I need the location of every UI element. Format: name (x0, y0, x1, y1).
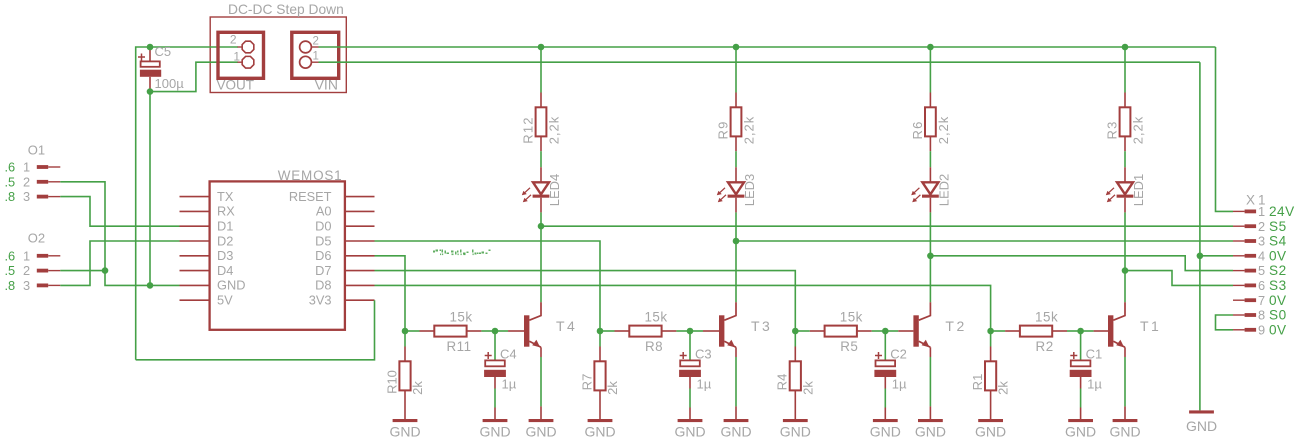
label O1 (28, 143, 45, 158)
ground C2 (870, 419, 901, 440)
svg-text:15k: 15k (1035, 310, 1058, 325)
junction base T1 (987, 328, 994, 335)
net label O2 pin 3 .8 (5, 278, 16, 293)
pin WEMOS1 D8 stub (345, 284, 375, 286)
svg-text:.5: .5 (5, 174, 16, 189)
svg-text:T3: T3 (751, 318, 772, 334)
net label O1 pin 2 .5 (5, 174, 16, 189)
capacitor C1 bottom plate (1070, 370, 1092, 377)
wire O1.3 to D1 (60, 197, 179, 227)
svg-text:100µ: 100µ (155, 76, 185, 91)
svg-text:1: 1 (1258, 204, 1265, 219)
pin label WEMOS1 D1 (217, 219, 233, 234)
pin number X1 9 (1258, 322, 1265, 337)
label C2 (890, 347, 907, 362)
wire GND net C5 column down (149, 92, 151, 286)
svg-text:1µ: 1µ (502, 377, 517, 392)
transistor T3 emitter lead down (735, 347, 737, 357)
svg-text:R1: R1 (970, 374, 985, 391)
LED LED4 lead top (540, 167, 542, 182)
LED LED2 arrows (911, 188, 920, 203)
note text green (433, 250, 491, 256)
LED LED2 lead bottom (929, 198, 931, 213)
ground C3 (674, 419, 705, 440)
connector VIN pin 2 pad (300, 41, 312, 53)
svg-text:R6: R6 (910, 120, 925, 139)
pin number VIN 1 (313, 51, 319, 63)
wire base feed 5 row (375, 271, 796, 331)
junction 24V rail at R9 (733, 44, 740, 51)
pin number O1 1 (23, 160, 30, 175)
pin X1.7 stub (1233, 298, 1256, 302)
value R8 15k (644, 310, 667, 325)
label R10 (384, 370, 399, 394)
pin WEMOS1 A0 stub (345, 210, 375, 212)
svg-text:1: 1 (23, 248, 30, 263)
svg-text:O1: O1 (28, 143, 45, 158)
wire base junction down (404, 331, 406, 347)
svg-text:GND: GND (479, 424, 510, 440)
svg-text:GND: GND (217, 278, 245, 293)
wire collector column T1 (1124, 212, 1126, 302)
pin X1.1 stub (1233, 210, 1256, 214)
svg-text:1: 1 (23, 160, 30, 175)
pin O1.3 stub (37, 195, 61, 199)
svg-text:.8: .8 (5, 278, 16, 293)
label WEMOS1 (278, 168, 343, 183)
ground R4 (780, 419, 811, 440)
net label O2 pin 2 .5 (5, 263, 16, 278)
svg-text:0V: 0V (1269, 322, 1287, 337)
net label X1.5 S2 (1269, 263, 1287, 278)
resistor R12 lead top (540, 93, 542, 108)
svg-text:1µ: 1µ (892, 377, 907, 392)
resistor R5 body (825, 326, 857, 337)
LED LED4 triangle (533, 182, 549, 194)
resistor R7 body (594, 361, 605, 390)
wire emitter to GND (1124, 357, 1126, 406)
svg-text:C3: C3 (695, 347, 712, 362)
resistor R6 lead top (929, 93, 931, 108)
wire cap junction to base (885, 330, 898, 332)
svg-text:GND: GND (389, 424, 420, 440)
LED LED2 triangle (922, 182, 938, 194)
junction 24V rail at R3 (1122, 44, 1129, 51)
svg-text:O2: O2 (28, 231, 45, 246)
ground R7 (584, 419, 615, 440)
svg-text:5: 5 (1258, 263, 1265, 278)
resistor R2 lead left (1005, 330, 1020, 332)
net label O1 pin 1 .6 (5, 160, 16, 175)
wire base junction to R2 (991, 330, 1006, 332)
wire S4 from T3 collector to X1 pin 3 (736, 240, 1233, 242)
resistor R8 lead right (662, 330, 677, 332)
svg-text:D1: D1 (217, 219, 233, 234)
connector VOUT pin 1 pad (242, 56, 254, 68)
value C4 1µ (502, 377, 517, 392)
transistor T1 base lead (1094, 330, 1108, 332)
ground C1 (1065, 419, 1096, 440)
LED LED1 triangle (1117, 182, 1133, 194)
svg-text:D0: D0 (315, 219, 331, 234)
pin number X1 5 (1258, 263, 1265, 278)
junction 0V at X1 pin 4 (1197, 253, 1204, 260)
capacitor C3 bottom plate (679, 370, 701, 377)
LED LED4 lead bottom (540, 198, 542, 213)
svg-text:VOUT: VOUT (217, 78, 255, 93)
junction 24V rail at R12 (538, 44, 545, 51)
wire S5 from T4 collector to X1 pin 2 (541, 225, 1233, 227)
transistor T3 base lead (703, 330, 719, 332)
resistor R5 lead right (857, 330, 872, 332)
pin number VOUT 1 (233, 49, 240, 63)
svg-text:3V3: 3V3 (309, 293, 332, 308)
net label X1.4 0V (1269, 248, 1287, 263)
transistor T1 base bar (1108, 315, 1113, 346)
svg-text:2: 2 (23, 263, 30, 278)
transistor T1 collector lead (1113, 302, 1125, 320)
capacitor C2 lead bottom (884, 377, 886, 389)
pin O1.2 stub (37, 180, 61, 184)
value C5 100µ (155, 76, 185, 91)
pin WEMOS1 RESET stub (345, 196, 375, 198)
svg-text:R2: R2 (1036, 339, 1054, 354)
resistor R1 body (985, 361, 996, 390)
svg-text:R12: R12 (521, 116, 536, 143)
svg-text:2: 2 (23, 174, 30, 189)
label R5 (840, 339, 858, 354)
pin X1.2 stub (1233, 224, 1256, 228)
pin WEMOS1 D2 stub (180, 240, 210, 242)
wire R3 to LED1 (1124, 151, 1126, 167)
value C2 1µ (892, 377, 907, 392)
ground T2 emitter (915, 419, 946, 440)
svg-text:R8: R8 (645, 339, 663, 354)
transistor T2 base bar (913, 315, 918, 346)
junction base T3 (597, 328, 604, 335)
resistor R7 lead bottom (599, 390, 601, 419)
wire O1.2 down to GND net (60, 182, 179, 286)
label C3 (695, 347, 712, 362)
capacitor C2 top plate (876, 360, 896, 366)
svg-text:2,2k: 2,2k (742, 116, 757, 145)
svg-text:3: 3 (1258, 234, 1265, 249)
svg-text:LED1: LED1 (1131, 174, 1146, 207)
wire cap gnd (689, 389, 691, 420)
wire 24V net VOUT.2 to C5 and left drop (136, 47, 238, 360)
svg-text:T4: T4 (556, 318, 577, 334)
svg-text:LED2: LED2 (936, 174, 951, 207)
svg-text:D7: D7 (315, 263, 331, 278)
net label X1.1 24V (1269, 204, 1295, 219)
svg-text:2k: 2k (410, 381, 425, 395)
resistor R1 lead bottom (990, 390, 992, 419)
svg-text:GND: GND (1065, 424, 1096, 440)
wire emitter gnd stub (735, 406, 737, 419)
label R7 (579, 374, 594, 391)
svg-text:3: 3 (23, 189, 30, 204)
pin number O1 3 (23, 189, 30, 204)
wire 24V rail to R12 (540, 47, 542, 93)
junction cap C4 (492, 328, 499, 335)
transistor T2 base lead (898, 330, 913, 332)
svg-text:GND: GND (1109, 424, 1140, 440)
pin O2.2 stub (37, 269, 61, 273)
transistor T1 emitter lead down (1124, 347, 1126, 357)
svg-text:R3: R3 (1105, 120, 1120, 139)
capacitor C5 bottom plate (140, 70, 161, 77)
LED LED1 lead bottom (1124, 198, 1126, 213)
pin label WEMOS1 5V (217, 293, 233, 308)
wire base junction to R11 (405, 330, 420, 332)
resistor R9 lead top (735, 93, 737, 108)
value R2 15k (1035, 310, 1058, 325)
pin number X1 6 (1258, 278, 1265, 293)
net label X1.9 0V (1269, 322, 1287, 337)
pin number X1 1 (1258, 204, 1265, 219)
junction collector T3 tap (733, 238, 740, 245)
wire cap junction to base (1081, 330, 1094, 332)
wire S0 strap X1 pin 8 to pin 9 (1216, 315, 1234, 330)
svg-text:2k: 2k (605, 381, 620, 395)
junction collector T1 tap (1122, 267, 1129, 274)
label DC-DC Step Down (228, 2, 344, 17)
transistor T4 base lead (508, 330, 524, 332)
ground C4 (479, 419, 510, 440)
svg-text:C5: C5 (155, 44, 172, 59)
svg-text:2: 2 (313, 36, 319, 48)
pin label WEMOS1 D8 (315, 278, 331, 293)
svg-text:GND: GND (1186, 418, 1217, 434)
pin X1.3 stub (1233, 239, 1256, 243)
pin WEMOS1 D7 stub (345, 270, 375, 272)
value R6 2,2k (936, 116, 951, 145)
wire base feed 3 row (375, 241, 601, 331)
junction cap C1 (1077, 328, 1084, 335)
wire 24V rail from VIN.2 to right (319, 46, 1216, 48)
ground R10 (389, 419, 420, 440)
pin number O1 2 (23, 174, 30, 189)
junction base T4 (402, 328, 409, 335)
capacitor C4 lead bottom (494, 377, 496, 389)
svg-text:.5: .5 (5, 263, 16, 278)
svg-text:R7: R7 (579, 374, 594, 391)
IC WEMOS1 box (210, 181, 345, 329)
label C4 (500, 347, 517, 362)
pin label WEMOS1 3V3 (309, 293, 332, 308)
resistor R9 body (731, 107, 742, 136)
pin X1.5 stub (1233, 269, 1256, 273)
pin number X1 3 (1258, 234, 1265, 249)
pin WEMOS1 5V stub (180, 299, 210, 301)
label C5 (155, 44, 172, 59)
ground T4 emitter (525, 419, 556, 440)
transistor T2 emitter lead down (929, 347, 931, 357)
wire base feed 4 row (375, 256, 406, 331)
value R4 2k (800, 381, 815, 395)
pin lead VOUT.1 (238, 61, 244, 63)
label O2 (28, 231, 45, 246)
svg-text:GND: GND (780, 424, 811, 440)
svg-text:LED4: LED4 (547, 174, 562, 207)
LED LED3 lead bottom (735, 198, 737, 213)
resistor R3 body (1120, 107, 1131, 136)
junction GND net at C5 column (147, 282, 154, 289)
transistor T3 base bar (719, 315, 724, 346)
wire emitter to GND (929, 357, 931, 406)
wire base junction to R8 (600, 330, 615, 332)
capacitor C5 top plate (141, 61, 160, 66)
pin X1.4 stub (1233, 254, 1256, 258)
svg-text:GND: GND (584, 424, 615, 440)
resistor R5 lead left (810, 330, 825, 332)
wire base junction to R5 (795, 330, 810, 332)
capacitor C1 top plate (1071, 360, 1091, 366)
svg-text:D6: D6 (315, 248, 331, 263)
svg-text:1µ: 1µ (1087, 377, 1102, 392)
value R9 2,2k (742, 116, 757, 145)
svg-text:0V: 0V (1269, 293, 1287, 308)
svg-text:R11: R11 (446, 339, 471, 354)
capacitor C4 lead top (494, 331, 496, 360)
wire base junction down (990, 331, 992, 347)
pin lead VIN.1 (312, 61, 319, 63)
capacitor C1 lead top (1080, 331, 1082, 360)
LED LED4 arrows (522, 188, 531, 203)
resistor R10 lead top (404, 347, 406, 362)
resistor R9 lead bottom (735, 136, 737, 151)
svg-text:D4: D4 (217, 263, 233, 278)
pin WEMOS1 D4 stub (180, 270, 210, 272)
wire S2 from T2 collector to X1 pin 5 (930, 256, 1233, 271)
wire cap gnd (494, 389, 496, 420)
resistor R11 lead left (420, 330, 435, 332)
pin label WEMOS1 D7 (315, 263, 331, 278)
resistor R2 body (1020, 326, 1052, 337)
pin O2.3 stub (37, 284, 61, 288)
wire base junction down (599, 331, 601, 347)
svg-text:T1: T1 (1140, 318, 1161, 334)
resistor R8 lead left (615, 330, 630, 332)
capacitor C2 lead top (884, 331, 886, 360)
transistor T2 emitter lead (919, 340, 931, 348)
pin label WEMOS1 RESET (289, 189, 332, 204)
wire 3V3 to VOUT net (136, 300, 375, 360)
svg-text:GND: GND (720, 424, 751, 440)
svg-text:6: 6 (1258, 278, 1265, 293)
net label X1.8 S0 (1269, 308, 1287, 323)
svg-text:DC-DC Step Down: DC-DC Step Down (228, 2, 344, 17)
wire collector column T2 (929, 212, 931, 302)
svg-text:LED3: LED3 (742, 174, 757, 207)
wire O2.2 to GND net (60, 270, 105, 272)
svg-text:D3: D3 (217, 248, 233, 263)
wire S3 from T1 collector to X1 pin 6 (1125, 271, 1233, 286)
wire 24V drop to X1 pin 1 (1216, 47, 1234, 211)
label T2 (945, 318, 966, 334)
svg-text:VIN: VIN (315, 77, 338, 93)
net label X1.6 S3 (1269, 278, 1287, 293)
label R9 (716, 120, 731, 139)
svg-text:2: 2 (230, 33, 237, 47)
svg-text:1: 1 (233, 49, 240, 63)
svg-text:24V: 24V (1269, 204, 1295, 219)
net label O2 pin 1 .6 (5, 248, 16, 263)
capacitor C5 lead bottom (149, 77, 151, 92)
wire cap gnd (1080, 389, 1082, 420)
wire emitter to GND (540, 357, 542, 406)
pin X1.6 stub (1233, 284, 1256, 288)
value R12 2,2k (547, 116, 562, 145)
svg-text:GND: GND (870, 424, 901, 440)
wire 24V rail to R9 (735, 47, 737, 93)
wire 24V rail to R3 (1124, 47, 1126, 93)
pin number O2 1 (23, 248, 30, 263)
capacitor C3 top plate (680, 360, 700, 366)
label R2 (1036, 339, 1054, 354)
transistor T4 emitter lead (529, 340, 541, 348)
capacitor C4 top plate (485, 360, 505, 366)
pin WEMOS1 3V3 stub (345, 299, 375, 301)
pin label WEMOS1 D5 (315, 233, 331, 248)
resistor R4 lead top (794, 347, 796, 362)
resistor R11 body (434, 326, 466, 337)
label T3 (751, 318, 772, 334)
svg-text:S2: S2 (1269, 263, 1287, 278)
wire R2 to cap junction (1067, 330, 1081, 332)
value R5 15k (840, 310, 863, 325)
connector VIN pin 1 pad (300, 56, 312, 68)
label R12 (521, 116, 536, 143)
pin number X1 2 (1258, 219, 1265, 234)
pin label WEMOS1 RX (217, 204, 235, 219)
label X1 (1246, 193, 1269, 208)
wire 0V vertical to GND (1199, 62, 1201, 410)
resistor R6 lead bottom (929, 136, 931, 151)
LED LED4 cathode bar (533, 195, 550, 198)
svg-text:2,2k: 2,2k (547, 116, 562, 145)
resistor R4 lead bottom (794, 390, 796, 419)
pin WEMOS1 D5 stub (345, 240, 375, 242)
pin label WEMOS1 A0 (316, 204, 332, 219)
LED LED2 lead top (929, 167, 931, 182)
svg-text:GND: GND (525, 424, 556, 440)
svg-text:9: 9 (1258, 322, 1265, 337)
junction base T2 (792, 328, 799, 335)
junction cap C2 (882, 328, 889, 335)
connector VOUT pin 2 pad (242, 41, 254, 53)
transistor T4 emitter lead down (540, 347, 542, 357)
wire cap gnd (884, 389, 886, 420)
label R6 (910, 120, 925, 139)
value R3 2,2k (1131, 116, 1146, 145)
pin lead VOUT.2 (238, 46, 244, 48)
pin number O2 2 (23, 263, 30, 278)
svg-text:.8: .8 (5, 189, 16, 204)
svg-text:C1: C1 (1086, 347, 1103, 362)
value R7 2k (605, 381, 620, 395)
svg-text:4: 4 (1258, 248, 1265, 263)
LED LED1 lead top (1124, 167, 1126, 182)
svg-text:C4: C4 (500, 347, 517, 362)
wire R5 to cap junction (872, 330, 886, 332)
pin WEMOS1 TX stub (180, 196, 210, 198)
wire 24V rail to R6 (929, 47, 931, 93)
LED LED3 lead top (735, 167, 737, 182)
wire 0V from VIN.1 to right (319, 61, 1200, 63)
net label X1.2 S5 (1269, 219, 1287, 234)
svg-text:T2: T2 (945, 318, 966, 334)
